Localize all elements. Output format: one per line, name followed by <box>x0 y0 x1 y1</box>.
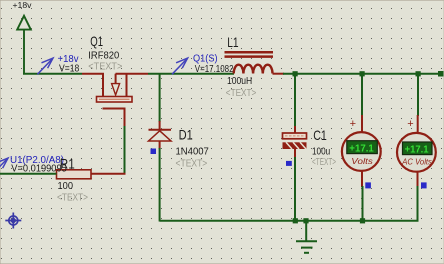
svg-text:+: + <box>350 118 356 130</box>
diode D1 1N4007 <box>149 121 172 149</box>
svg-text:L1: L1 <box>227 34 239 50</box>
wire end square <box>438 71 444 77</box>
wire L1 to right end <box>283 73 442 75</box>
inductor L1 coils <box>234 65 273 74</box>
svg-text:R1: R1 <box>60 155 75 171</box>
svg-text:IRF820: IRF820 <box>88 50 119 61</box>
svg-text:V=18: V=18 <box>59 64 80 75</box>
bottom rail wire <box>160 220 419 222</box>
V1 marker square <box>365 182 371 188</box>
voltmeter V2 body <box>397 133 436 172</box>
capacitor C1 bottom plate <box>283 142 307 149</box>
D1 marker square <box>151 149 157 155</box>
svg-text:C1: C1 <box>313 127 327 143</box>
svg-text:100u: 100u <box>312 146 330 157</box>
transistor Q1 MOSFET IRF820 <box>82 74 148 127</box>
svg-text:+: + <box>407 118 413 130</box>
svg-text:100: 100 <box>58 181 74 192</box>
voltage probe Q1(S) <box>172 58 188 74</box>
node junction ground <box>303 218 308 223</box>
svg-text:<TEXT>: <TEXT> <box>88 62 122 73</box>
wire C1 top <box>294 74 296 133</box>
node junction V1 top <box>360 71 365 76</box>
Q1 body arrow <box>112 84 120 95</box>
voltmeter V1 body <box>342 132 381 171</box>
voltage probe +18v <box>37 58 53 74</box>
resistor R1 <box>57 170 92 179</box>
ground <box>296 221 317 253</box>
svg-text:+18v: +18v <box>13 0 33 10</box>
node junction V2 top <box>416 71 421 76</box>
svg-text:Volts: Volts <box>351 156 373 166</box>
voltage probe U1(P2.0/A8) <box>0 158 8 174</box>
origin marker <box>5 213 21 229</box>
node junction V1 bottom <box>360 218 365 223</box>
R1 left pin wire <box>0 173 57 175</box>
wire C1 bottom <box>294 157 296 221</box>
L1 right pin <box>273 73 285 75</box>
V2 marker square <box>421 182 427 188</box>
svg-text:1N4007: 1N4007 <box>176 146 210 157</box>
svg-text:100uH: 100uH <box>227 76 252 87</box>
svg-text:<TEXT>: <TEXT> <box>176 158 208 169</box>
C1 marker square <box>286 161 292 166</box>
svg-text:D1: D1 <box>179 127 193 143</box>
svg-text:Q1: Q1 <box>90 33 103 49</box>
wire D1 to bottom rail <box>159 148 161 222</box>
svg-text:+17.1: +17.1 <box>405 145 429 156</box>
svg-text:+17.1: +17.1 <box>349 143 374 154</box>
node junction C1 top <box>293 71 298 76</box>
node junction C1 bottom <box>293 218 298 223</box>
wire gate to R1 <box>124 126 126 175</box>
capacitor C1 pins <box>294 126 296 133</box>
voltmeter V1 LCD <box>347 141 378 154</box>
svg-text:<TEXT>: <TEXT> <box>226 88 257 99</box>
wire top-left horizontal <box>23 73 82 75</box>
capacitor C1 top plate <box>283 133 307 139</box>
node D1 top (wire down) <box>159 74 161 122</box>
drain pin <box>82 74 103 96</box>
voltmeter V1 wires <box>361 74 363 116</box>
svg-text:AC Volts: AC Volts <box>401 157 432 167</box>
svg-text:Q1(S): Q1(S) <box>193 54 218 65</box>
svg-text:<TEXT>: <TEXT> <box>57 192 88 203</box>
voltmeter V2 LCD <box>403 142 433 155</box>
svg-text:<TEXT>: <TEXT> <box>312 157 336 168</box>
voltmeter V2 wires <box>417 74 419 116</box>
source pin <box>116 73 149 75</box>
Q1 channel plate <box>97 97 133 103</box>
svg-text:V=17.1082: V=17.1082 <box>195 64 234 75</box>
inductor L1 core bars <box>225 51 274 54</box>
gate pin <box>103 109 125 128</box>
power terminal +18v <box>17 16 31 74</box>
wire Q1 source to L1 <box>148 73 234 75</box>
